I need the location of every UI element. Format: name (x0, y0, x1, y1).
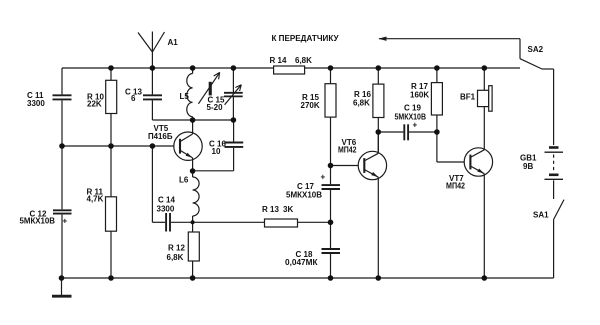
svg-text:SA2: SA2 (528, 45, 544, 54)
svg-text:5МКХ10В: 5МКХ10В (395, 112, 427, 121)
svg-text:+: + (413, 121, 418, 130)
svg-text:5-20: 5-20 (207, 103, 224, 112)
wire right vertical to battery (553, 69, 555, 145)
node bottom VT7 (482, 275, 488, 281)
wire bottom rail y=278 (62, 277, 554, 279)
wire left vertical x=62 (top segment) (61, 68, 63, 94)
capacitor C17 (322, 185, 341, 189)
antenna A1 (138, 32, 165, 69)
switch SA2 (520, 39, 554, 69)
svg-text:П416Б: П416Б (148, 132, 173, 141)
svg-text:22K: 22K (87, 100, 102, 109)
capacitor C18 (322, 249, 341, 253)
svg-text:6,8K: 6,8K (295, 56, 312, 65)
wire left vertical x=62 (bottom segment) (61, 215, 63, 278)
node tank C15 (231, 117, 237, 123)
resistor R10 (106, 68, 117, 146)
wire C18 to bottom rail (330, 254, 332, 278)
svg-text:SA1: SA1 (533, 211, 549, 220)
node rail-L5 (190, 65, 196, 71)
wire tank rail y=120 (193, 119, 234, 121)
resistor R12 (188, 222, 199, 278)
wire arrow line to transmitter (378, 37, 520, 41)
node rail-C15 (231, 65, 237, 71)
resistor R11 (106, 146, 117, 278)
wire R17 to VT7 base (437, 161, 471, 163)
node base rail left (59, 143, 65, 149)
wire left vertical x=62 (middle segment) (61, 100, 63, 209)
wire C17 to C18 (330, 190, 332, 248)
node VT5 collector (190, 168, 196, 174)
svg-text:A1: A1 (168, 38, 179, 47)
svg-text:+: + (63, 217, 68, 226)
transistor VT7 (464, 107, 492, 278)
resistor R14 (274, 66, 305, 74)
svg-text:4,7K: 4,7K (87, 195, 104, 204)
node C19 right (434, 129, 440, 135)
svg-text:270K: 270K (301, 101, 320, 110)
svg-text:3300: 3300 (157, 205, 175, 214)
battery GB1 (545, 148, 564, 200)
svg-text:160K: 160K (410, 91, 429, 100)
svg-text:0,047МК: 0,047МК (285, 258, 318, 267)
svg-text:C 19: C 19 (404, 103, 421, 112)
node rail-antenna (150, 65, 156, 71)
node base rail R10 (108, 143, 114, 149)
wire second rail y=146 (62, 145, 180, 147)
ground (52, 278, 72, 296)
node rail-R10 (108, 65, 114, 71)
svg-text:10: 10 (212, 147, 221, 156)
transistor VT5 (174, 120, 202, 171)
capacitor C16 (225, 120, 244, 171)
node R13 C17 (328, 220, 334, 226)
svg-text:К ПЕРЕДАТЧИКУ: К ПЕРЕДАТЧИКУ (272, 34, 340, 43)
wire VT6 base lead (331, 165, 365, 167)
node VT6 base (328, 163, 334, 169)
capacitor C14 (166, 213, 170, 232)
resistor R16 (373, 68, 384, 153)
svg-text:9В: 9В (523, 162, 533, 171)
svg-text:МП42: МП42 (338, 146, 357, 155)
svg-text:5МКХ10В: 5МКХ10В (20, 217, 56, 226)
capacitor C19 (378, 124, 437, 140)
transistor VT6 (358, 132, 386, 278)
svg-text:+: + (321, 173, 326, 182)
node bottom VT6 (376, 275, 382, 281)
node bottom C18 (328, 275, 334, 281)
svg-text:5МКХ10В: 5МКХ10В (286, 191, 322, 200)
resistor R13 (193, 219, 331, 227)
svg-text:6,8K: 6,8K (167, 253, 184, 262)
svg-text:3300: 3300 (27, 99, 45, 108)
node gnd (59, 275, 65, 281)
wire R15 bottom to C17 (330, 117, 332, 184)
svg-text:3K: 3K (283, 205, 293, 214)
node tank L5 (190, 117, 196, 123)
svg-text:C 17: C 17 (297, 182, 314, 191)
svg-text:BF1: BF1 (460, 92, 476, 101)
svg-text:6: 6 (131, 94, 136, 103)
svg-text:МП42: МП42 (446, 182, 465, 191)
svg-text:L5: L5 (180, 92, 190, 101)
svg-text:C 14: C 14 (158, 196, 175, 205)
node base rail C14 (150, 143, 156, 149)
inductor L6 (193, 171, 200, 222)
earphone BF1 (478, 68, 493, 111)
wire C13 to L5 bottom (152, 119, 192, 121)
capacitor C12 (53, 210, 72, 213)
node bottom R11 (108, 275, 114, 281)
resistor R17 (431, 68, 442, 162)
node rail-R16 (376, 65, 382, 71)
node rail-R15 (328, 65, 334, 71)
node bottom R12 (190, 275, 196, 281)
wire VT5 collector link y=171 (193, 170, 234, 172)
svg-text:R 14: R 14 (270, 56, 287, 65)
capacitor C13 (143, 68, 162, 120)
svg-text:L6: L6 (179, 176, 189, 185)
inductor L5 (variable, with core) (187, 68, 220, 120)
wire top rail y=68 (62, 67, 520, 69)
capacitor C15 (variable) (224, 68, 243, 120)
resistor R15 (325, 68, 336, 117)
capacitor C11 (53, 95, 72, 99)
node rail-BF1 (482, 65, 488, 71)
node L6 R12 C14 (191, 220, 195, 224)
svg-text:R 13: R 13 (262, 205, 279, 214)
wire branch x=152.4 down to C14 (151, 146, 153, 222)
svg-text:R 12: R 12 (168, 244, 185, 253)
switch SA1 (554, 200, 564, 278)
wire C14 left lead (152, 221, 165, 223)
node C19 left (376, 129, 382, 135)
svg-text:6,8K: 6,8K (353, 99, 370, 108)
wire C14 right lead (171, 221, 193, 223)
node rail-R17 (434, 65, 440, 71)
